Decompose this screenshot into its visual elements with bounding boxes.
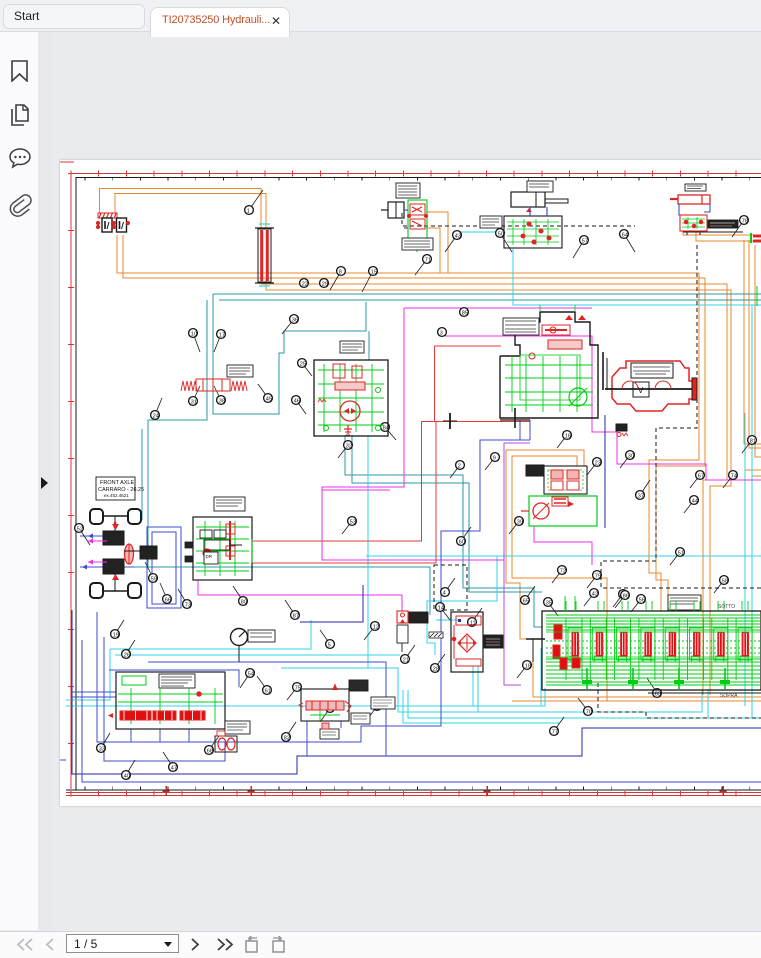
svg-text:2: 2 (458, 463, 461, 469)
svg-text:23: 23 (595, 460, 601, 466)
svg-text:68: 68 (207, 748, 213, 754)
svg-text:33: 33 (99, 746, 105, 752)
svg-text:85: 85 (462, 310, 468, 316)
svg-text:78: 78 (742, 218, 748, 224)
svg-text:22: 22 (302, 281, 308, 287)
svg-text:44: 44 (692, 498, 698, 504)
svg-text:75: 75 (295, 685, 301, 691)
svg-text:51: 51 (678, 550, 684, 556)
svg-text:77: 77 (552, 729, 558, 735)
svg-text:82: 82 (284, 735, 290, 741)
svg-text:87: 87 (293, 613, 299, 619)
svg-text:SOPRA: SOPRA (720, 693, 738, 699)
svg-text:56: 56 (639, 597, 645, 603)
svg-text:26: 26 (124, 652, 130, 658)
svg-text:74: 74 (731, 473, 737, 479)
svg-text:79: 79 (595, 573, 601, 579)
svg-text:73: 73 (185, 602, 191, 608)
svg-text:43: 43 (455, 233, 461, 239)
svg-text:18: 18 (525, 663, 531, 669)
svg-text:12: 12 (373, 624, 379, 630)
svg-text:21: 21 (403, 657, 409, 663)
svg-text:50: 50 (498, 231, 504, 237)
svg-text:9: 9 (493, 455, 496, 461)
svg-text:67: 67 (698, 473, 704, 479)
svg-text:1: 1 (247, 208, 250, 214)
svg-text:31: 31 (191, 399, 197, 405)
svg-text:30: 30 (628, 453, 634, 459)
svg-text:DR: DR (206, 554, 213, 559)
svg-text:46: 46 (294, 398, 300, 404)
svg-text:70: 70 (586, 709, 592, 715)
svg-text:24: 24 (153, 413, 159, 419)
svg-text:32: 32 (346, 443, 352, 449)
svg-text:65: 65 (523, 598, 529, 604)
svg-text:57: 57 (582, 238, 588, 244)
svg-text:FRONT AXLE: FRONT AXLE (100, 480, 134, 486)
svg-text:40: 40 (124, 773, 130, 779)
svg-text:72: 72 (560, 568, 566, 574)
svg-text:39: 39 (517, 519, 523, 525)
svg-text:60: 60 (459, 539, 465, 545)
svg-text:17: 17 (219, 332, 225, 338)
svg-text:71: 71 (425, 257, 431, 263)
svg-text:14: 14 (438, 605, 444, 611)
svg-text:64: 64 (622, 232, 628, 238)
svg-text:V: V (638, 386, 644, 395)
svg-text:38: 38 (219, 398, 225, 404)
svg-text:25: 25 (300, 361, 306, 367)
svg-text:3: 3 (440, 330, 443, 336)
svg-text:80: 80 (241, 599, 247, 605)
svg-text:63: 63 (655, 691, 661, 697)
svg-text:66: 66 (165, 597, 171, 603)
svg-text:SOTTO: SOTTO (718, 604, 735, 610)
svg-text:10: 10 (191, 331, 197, 337)
svg-text:37: 37 (638, 493, 644, 499)
svg-text:15: 15 (371, 269, 377, 275)
svg-text:54: 54 (248, 671, 254, 677)
svg-text:52: 52 (77, 526, 83, 532)
svg-text:16: 16 (565, 433, 571, 439)
svg-text:36: 36 (292, 317, 298, 323)
svg-text:81: 81 (750, 438, 756, 444)
svg-text:86: 86 (623, 593, 629, 599)
svg-text:ex.452.4621: ex.452.4621 (104, 493, 129, 498)
svg-text:61: 61 (265, 688, 271, 694)
svg-text:59: 59 (151, 576, 157, 582)
svg-text:8: 8 (339, 269, 342, 275)
svg-text:58: 58 (722, 578, 728, 584)
svg-text:5: 5 (328, 642, 331, 648)
svg-text:47: 47 (171, 765, 177, 771)
svg-text:19: 19 (113, 632, 119, 638)
svg-text:42: 42 (592, 591, 598, 597)
svg-text:4: 4 (443, 590, 446, 596)
svg-text:28: 28 (433, 666, 439, 672)
svg-text:29: 29 (322, 281, 328, 287)
svg-text:35: 35 (546, 600, 552, 606)
svg-text:45: 45 (266, 396, 272, 402)
svg-text:53: 53 (350, 519, 356, 525)
